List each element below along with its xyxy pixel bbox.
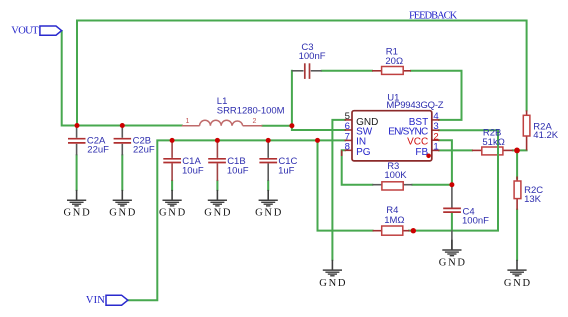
svg-text:1: 1 xyxy=(433,142,438,153)
svg-text:GND: GND xyxy=(64,207,91,218)
svg-text:41.2K: 41.2K xyxy=(533,130,558,141)
svg-text:SRR1280-100M: SRR1280-100M xyxy=(217,105,285,116)
svg-text:51kΩ: 51kΩ xyxy=(482,137,504,148)
svg-text:GND: GND xyxy=(504,278,531,289)
svg-text:1MΩ: 1MΩ xyxy=(384,215,404,226)
svg-text:22uF: 22uF xyxy=(133,145,155,156)
svg-text:2: 2 xyxy=(253,118,257,125)
svg-text:GND: GND xyxy=(439,257,466,268)
svg-text:GND: GND xyxy=(204,207,231,218)
svg-text:GND: GND xyxy=(159,207,186,218)
svg-text:FEEDBACK: FEEDBACK xyxy=(409,11,458,22)
svg-text:100nF: 100nF xyxy=(299,51,326,62)
svg-text:1: 1 xyxy=(186,118,190,125)
svg-text:100nF: 100nF xyxy=(462,216,489,227)
svg-text:22uF: 22uF xyxy=(87,145,109,156)
svg-text:100K: 100K xyxy=(384,170,407,181)
svg-text:8: 8 xyxy=(345,142,350,153)
svg-text:GND: GND xyxy=(255,207,282,218)
svg-text:VOUT: VOUT xyxy=(11,25,39,36)
svg-text:MP9943GQ-Z: MP9943GQ-Z xyxy=(386,100,443,111)
svg-text:GND: GND xyxy=(319,278,346,289)
svg-text:PG: PG xyxy=(356,147,371,158)
svg-text:10uF: 10uF xyxy=(227,165,249,176)
svg-text:FB: FB xyxy=(415,147,428,158)
svg-text:13K: 13K xyxy=(524,194,542,205)
svg-text:1uF: 1uF xyxy=(278,165,295,176)
svg-text:GND: GND xyxy=(109,207,136,218)
svg-text:VIN: VIN xyxy=(86,295,105,306)
svg-text:10uF: 10uF xyxy=(182,165,204,176)
svg-text:20Ω: 20Ω xyxy=(385,56,403,67)
